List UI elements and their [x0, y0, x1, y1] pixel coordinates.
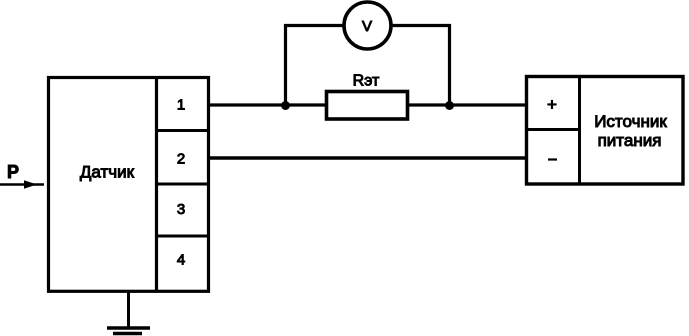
svg-text:3: 3: [177, 201, 185, 218]
node junction right (wire1 / voltmeter): [445, 101, 454, 110]
pin divider 3/4: [156, 235, 207, 238]
wire voltmeter left lead: [286, 26, 345, 106]
svg-text:Датчик: Датчик: [80, 163, 135, 182]
pin divider 2/3: [156, 183, 207, 186]
power terminal − label: [548, 158, 557, 160]
svg-text:1: 1: [177, 97, 185, 114]
svg-text:P: P: [7, 162, 19, 182]
svg-text:питания: питания: [598, 131, 662, 150]
wire voltmeter right lead: [392, 26, 450, 106]
ground bar 1: [107, 326, 150, 330]
node junction left (wire1 / voltmeter): [281, 101, 290, 110]
voltmeter V1 body: [344, 2, 391, 49]
resistor R эт (Rэт): [327, 92, 408, 120]
power terminal column divider: [578, 77, 581, 185]
pin divider 1/2: [156, 129, 207, 132]
svg-text:Rэт: Rэт: [353, 73, 380, 90]
svg-text:4: 4: [177, 252, 185, 269]
power supply block Источник питания outline: [527, 77, 684, 185]
svg-text:+: +: [547, 95, 557, 114]
power plus/minus divider: [525, 128, 580, 131]
svg-text:2: 2: [177, 151, 185, 168]
wire pin1 to power plus (net across Rэт): [207, 103, 526, 106]
ground stem wire: [127, 291, 130, 327]
node P arrow line: [0, 183, 44, 186]
wire pin2 to power minus: [207, 156, 526, 159]
sensor pin column divider: [155, 78, 158, 292]
ground bar 2: [113, 332, 142, 336]
sensor block Датчик outline: [49, 78, 209, 292]
svg-text:Источник: Источник: [594, 112, 667, 131]
node P arrowhead: [24, 180, 37, 189]
svg-text:V: V: [362, 18, 372, 35]
